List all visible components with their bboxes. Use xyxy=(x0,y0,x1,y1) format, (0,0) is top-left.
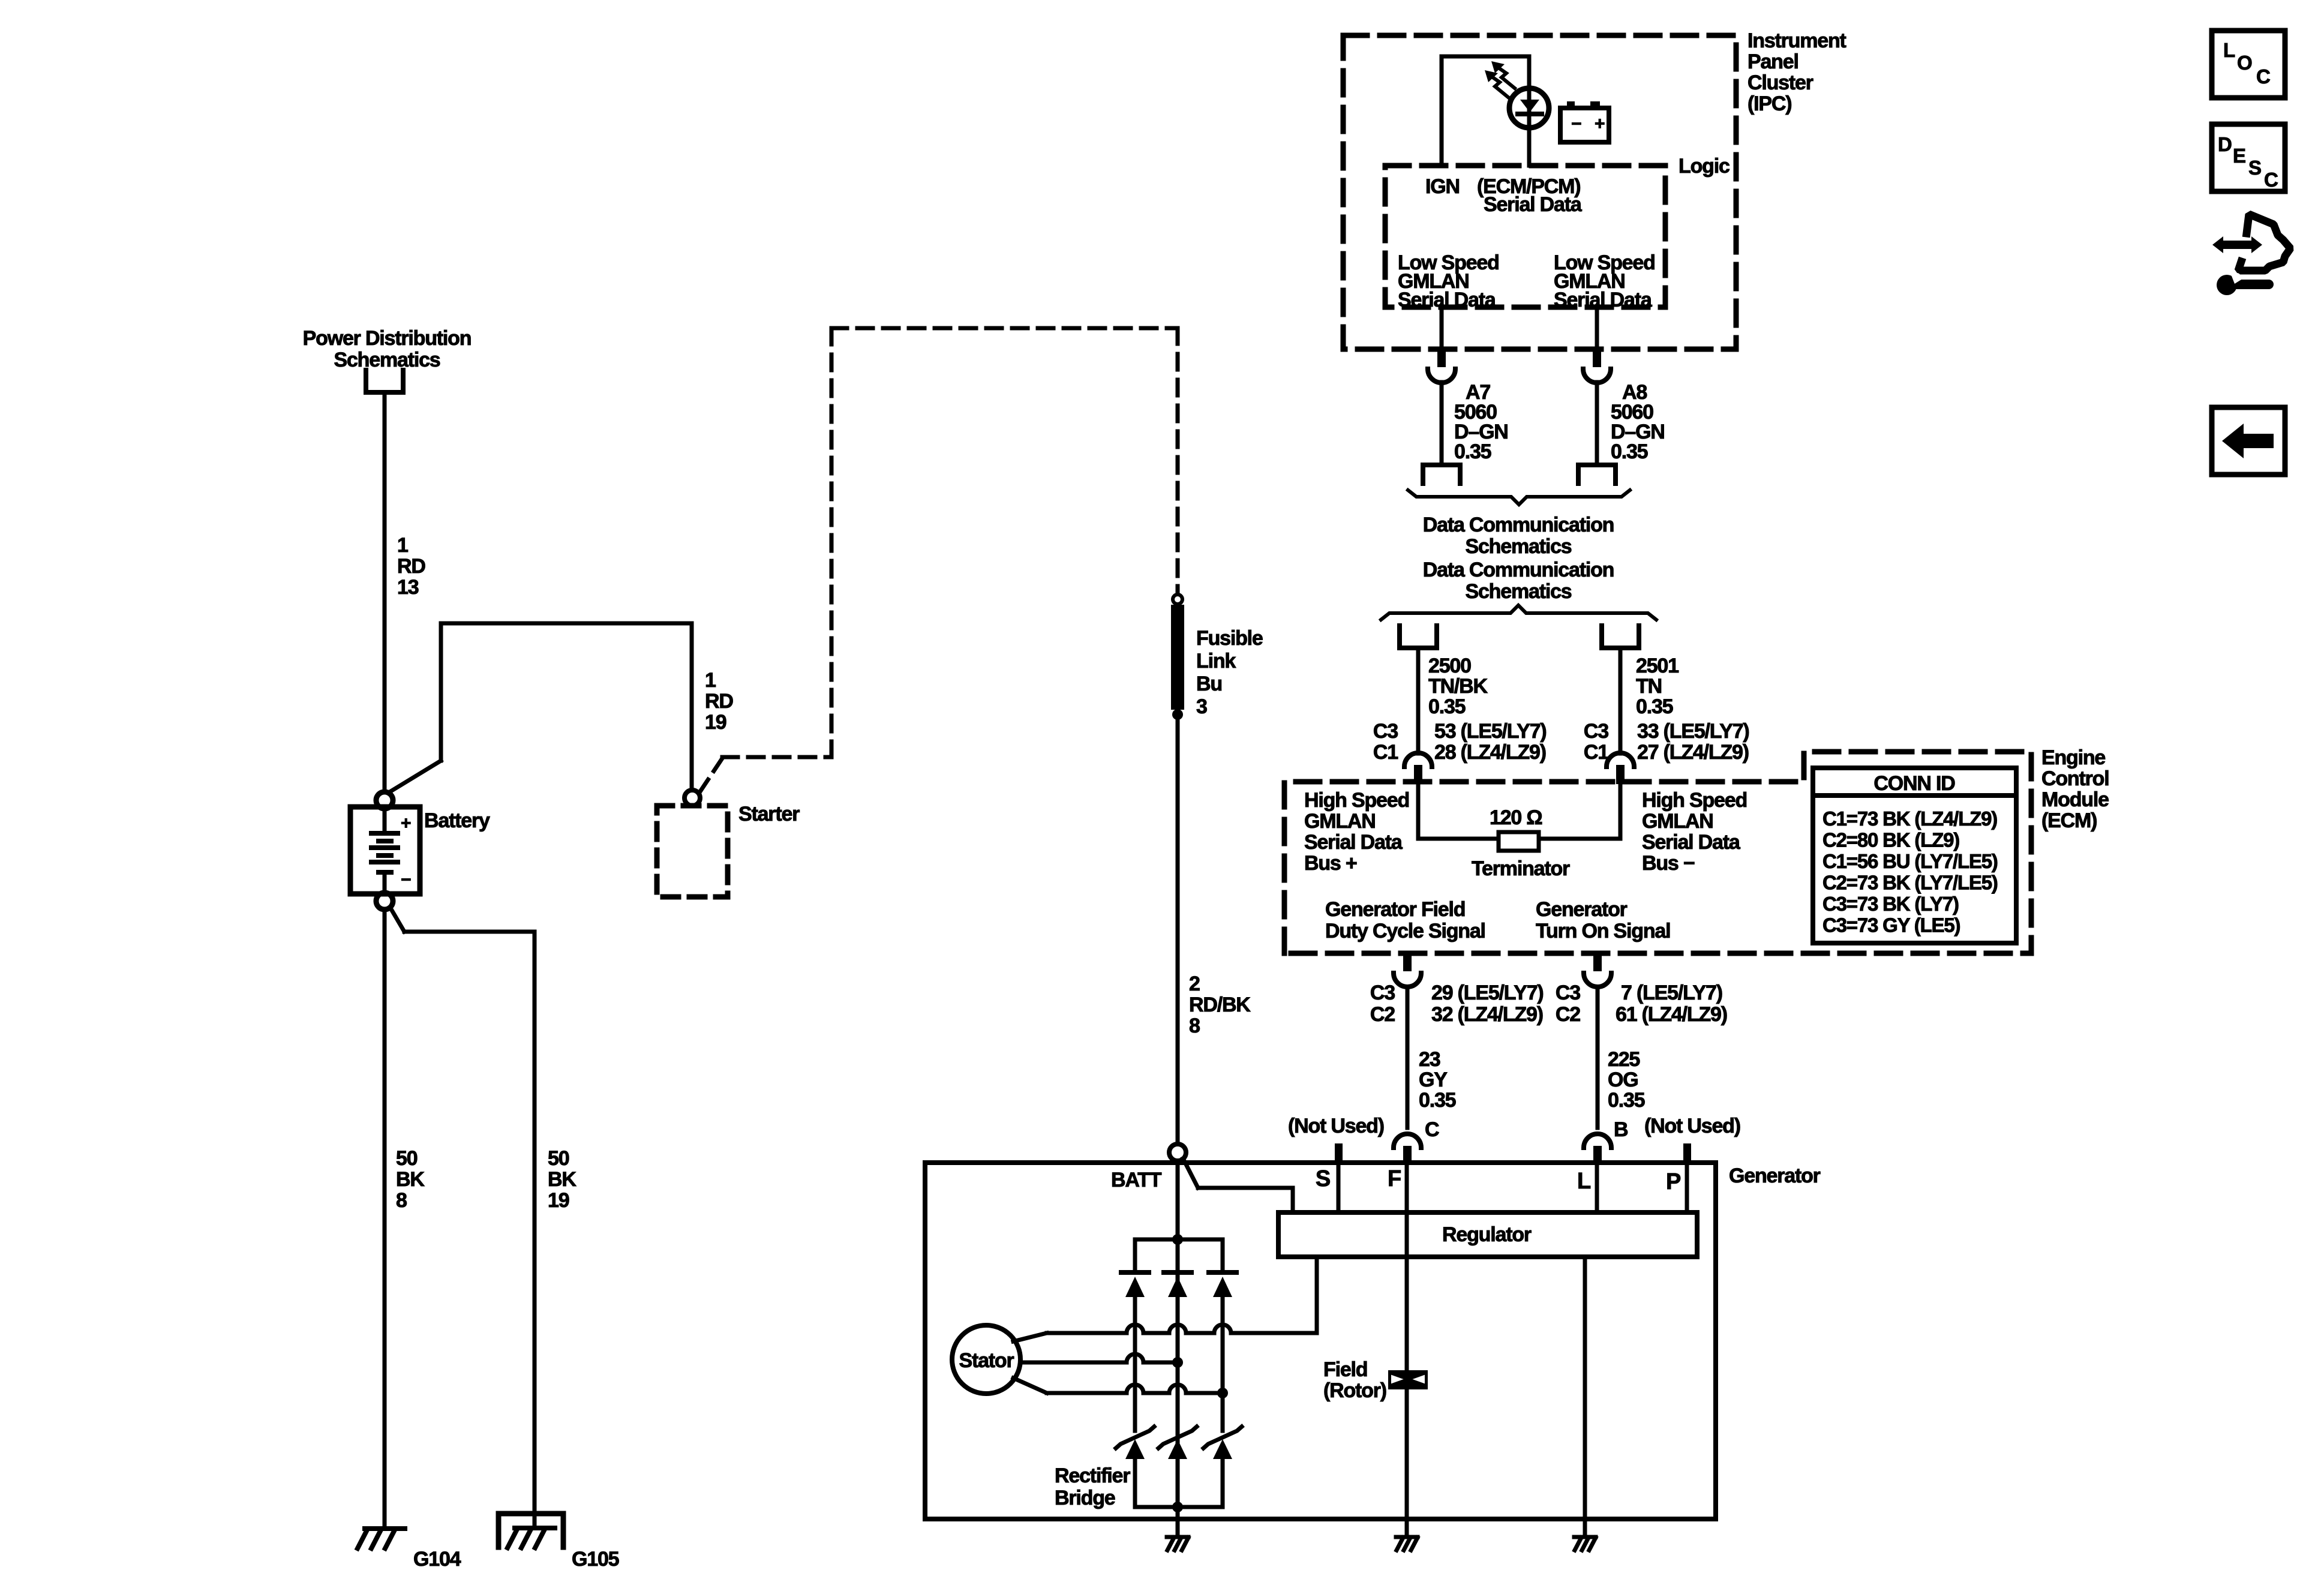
svg-text:Serial Data: Serial Data xyxy=(1484,193,1583,216)
svg-text:2: 2 xyxy=(1189,972,1200,995)
svg-text:BK: BK xyxy=(548,1168,577,1191)
svg-text:28 (LZ4/LZ9): 28 (LZ4/LZ9) xyxy=(1434,741,1546,764)
svg-text:Power Distribution: Power Distribution xyxy=(303,327,472,350)
svg-text:B: B xyxy=(1614,1118,1628,1141)
svg-text:Logic: Logic xyxy=(1679,155,1730,178)
svg-text:Generator: Generator xyxy=(1536,898,1628,921)
svg-text:C2: C2 xyxy=(1370,1003,1395,1026)
svg-text:Serial Data: Serial Data xyxy=(1554,289,1653,311)
svg-text:+: + xyxy=(401,813,411,833)
svg-text:C: C xyxy=(1425,1118,1439,1141)
svg-text:C3: C3 xyxy=(1370,981,1395,1004)
svg-text:RD/BK: RD/BK xyxy=(1189,993,1251,1016)
svg-text:50: 50 xyxy=(396,1147,418,1170)
svg-text:8: 8 xyxy=(1189,1014,1200,1037)
svg-text:225: 225 xyxy=(1608,1048,1640,1071)
svg-text:(ECM): (ECM) xyxy=(2041,809,2097,832)
svg-text:Generator: Generator xyxy=(1729,1164,1821,1187)
svg-text:8: 8 xyxy=(396,1189,407,1212)
svg-text:7 (LE5/LY7): 7 (LE5/LY7) xyxy=(1621,981,1722,1004)
svg-text:Data Communication: Data Communication xyxy=(1423,514,1614,536)
svg-text:IGN: IGN xyxy=(1425,175,1460,198)
svg-text:Field: Field xyxy=(1323,1358,1367,1381)
svg-text:Schematics: Schematics xyxy=(334,349,440,371)
svg-text:Bus −: Bus − xyxy=(1642,852,1695,875)
svg-text:27 (LZ4/LZ9): 27 (LZ4/LZ9) xyxy=(1637,741,1749,764)
svg-text:120 Ω: 120 Ω xyxy=(1490,806,1542,829)
svg-text:TN/BK: TN/BK xyxy=(1428,675,1488,698)
svg-text:C2=73 BK (LY7/LE5): C2=73 BK (LY7/LE5) xyxy=(1822,872,1998,894)
svg-text:61 (LZ4/LZ9): 61 (LZ4/LZ9) xyxy=(1616,1003,1727,1026)
svg-text:0.35: 0.35 xyxy=(1611,440,1648,463)
svg-text:Serial Data: Serial Data xyxy=(1304,831,1403,854)
svg-text:L: L xyxy=(1577,1169,1591,1194)
svg-text:Duty Cycle Signal: Duty Cycle Signal xyxy=(1325,920,1485,942)
svg-text:13: 13 xyxy=(397,576,419,599)
svg-text:−: − xyxy=(401,870,411,890)
svg-text:19: 19 xyxy=(705,711,726,734)
svg-text:Schematics: Schematics xyxy=(1466,580,1572,603)
svg-text:RD: RD xyxy=(397,555,425,578)
svg-text:0.35: 0.35 xyxy=(1454,440,1491,463)
svg-text:C2: C2 xyxy=(1556,1003,1580,1026)
svg-text:Battery: Battery xyxy=(424,809,490,832)
svg-text:0.35: 0.35 xyxy=(1428,695,1466,718)
svg-text:GMLAN: GMLAN xyxy=(1304,810,1376,833)
svg-text:High Speed: High Speed xyxy=(1304,789,1409,812)
svg-text:L: L xyxy=(2223,39,2235,61)
svg-text:Serial Data: Serial Data xyxy=(1398,289,1497,311)
svg-text:Data Communication: Data Communication xyxy=(1423,559,1614,581)
svg-text:1: 1 xyxy=(705,669,716,692)
svg-text:Generator Field: Generator Field xyxy=(1325,898,1465,921)
svg-text:C1: C1 xyxy=(1584,741,1608,764)
svg-text:Terminator: Terminator xyxy=(1472,857,1570,880)
svg-text:0.35: 0.35 xyxy=(1419,1089,1456,1112)
svg-text:GMLAN: GMLAN xyxy=(1642,810,1713,833)
svg-text:C1=56 BU (LY7/LE5): C1=56 BU (LY7/LE5) xyxy=(1822,850,1998,872)
svg-text:3: 3 xyxy=(1196,695,1207,718)
svg-text:C3: C3 xyxy=(1556,981,1580,1004)
svg-text:OG: OG xyxy=(1608,1068,1638,1091)
svg-text:23: 23 xyxy=(1419,1048,1440,1071)
svg-text:C3=73 GY (LE5): C3=73 GY (LE5) xyxy=(1822,914,1960,936)
svg-text:53 (LE5/LY7): 53 (LE5/LY7) xyxy=(1434,720,1547,743)
svg-text:50: 50 xyxy=(548,1147,569,1170)
svg-text:TN: TN xyxy=(1636,675,1662,698)
svg-text:Regulator: Regulator xyxy=(1442,1223,1532,1246)
svg-text:0.35: 0.35 xyxy=(1608,1089,1645,1112)
svg-text:(Not Used): (Not Used) xyxy=(1288,1115,1384,1137)
svg-text:Module: Module xyxy=(2041,788,2109,811)
svg-text:C3=73 BK (LY7): C3=73 BK (LY7) xyxy=(1822,893,1959,915)
svg-text:High Speed: High Speed xyxy=(1642,789,1747,812)
svg-text:32 (LZ4/LZ9): 32 (LZ4/LZ9) xyxy=(1431,1003,1543,1026)
svg-text:BK: BK xyxy=(396,1168,425,1191)
svg-text:1: 1 xyxy=(397,534,408,557)
svg-text:Cluster: Cluster xyxy=(1747,71,1813,94)
svg-text:C2=80 BK (LZ9): C2=80 BK (LZ9) xyxy=(1822,829,1959,851)
svg-text:Turn On Signal: Turn On Signal xyxy=(1536,920,1670,942)
svg-text:Starter: Starter xyxy=(738,803,800,825)
svg-text:O: O xyxy=(2237,52,2252,74)
svg-text:Stator: Stator xyxy=(959,1349,1014,1372)
svg-text:C3: C3 xyxy=(1584,720,1608,743)
svg-text:Instrument: Instrument xyxy=(1747,29,1846,52)
svg-text:19: 19 xyxy=(548,1189,569,1212)
svg-text:0.35: 0.35 xyxy=(1636,695,1673,718)
svg-text:Engine: Engine xyxy=(2041,746,2105,769)
svg-text:S: S xyxy=(2248,157,2261,179)
svg-text:Fusible: Fusible xyxy=(1196,627,1263,650)
svg-text:GY: GY xyxy=(1419,1068,1448,1091)
svg-text:(IPC): (IPC) xyxy=(1747,92,1791,115)
svg-text:+: + xyxy=(1595,114,1605,134)
svg-text:33 (LE5/LY7): 33 (LE5/LY7) xyxy=(1637,720,1749,743)
svg-text:P: P xyxy=(1666,1169,1681,1194)
svg-text:BATT: BATT xyxy=(1111,1169,1162,1191)
svg-text:S: S xyxy=(1316,1166,1330,1191)
svg-text:2500: 2500 xyxy=(1428,655,1471,677)
svg-text:29 (LE5/LY7): 29 (LE5/LY7) xyxy=(1431,981,1544,1004)
svg-text:C: C xyxy=(2264,169,2278,191)
svg-text:(Rotor): (Rotor) xyxy=(1323,1379,1386,1402)
svg-text:Bridge: Bridge xyxy=(1055,1487,1115,1509)
svg-text:Link: Link xyxy=(1196,650,1236,673)
svg-text:Rectifier: Rectifier xyxy=(1055,1464,1130,1487)
svg-text:RD: RD xyxy=(705,690,733,713)
svg-text:Panel: Panel xyxy=(1747,50,1798,73)
svg-text:CONN ID: CONN ID xyxy=(1873,772,1955,795)
svg-text:C3: C3 xyxy=(1373,720,1398,743)
svg-text:Serial Data: Serial Data xyxy=(1642,831,1741,854)
svg-text:C: C xyxy=(2256,65,2270,88)
svg-text:G105: G105 xyxy=(572,1548,619,1571)
svg-text:Control: Control xyxy=(2041,767,2109,790)
svg-text:(Not Used): (Not Used) xyxy=(1644,1115,1740,1137)
svg-text:D: D xyxy=(2218,133,2232,155)
svg-text:F: F xyxy=(1388,1166,1401,1191)
svg-text:Bus +: Bus + xyxy=(1304,852,1357,875)
svg-text:Schematics: Schematics xyxy=(1466,535,1572,558)
svg-text:G104: G104 xyxy=(413,1548,461,1571)
svg-text:Bu: Bu xyxy=(1196,673,1222,695)
svg-text:C1=73 BK (LZ4/LZ9): C1=73 BK (LZ4/LZ9) xyxy=(1822,807,1997,830)
svg-text:C1: C1 xyxy=(1373,741,1398,764)
svg-text:E: E xyxy=(2233,145,2245,167)
svg-text:−: − xyxy=(1571,114,1581,134)
svg-text:2501: 2501 xyxy=(1636,655,1679,677)
